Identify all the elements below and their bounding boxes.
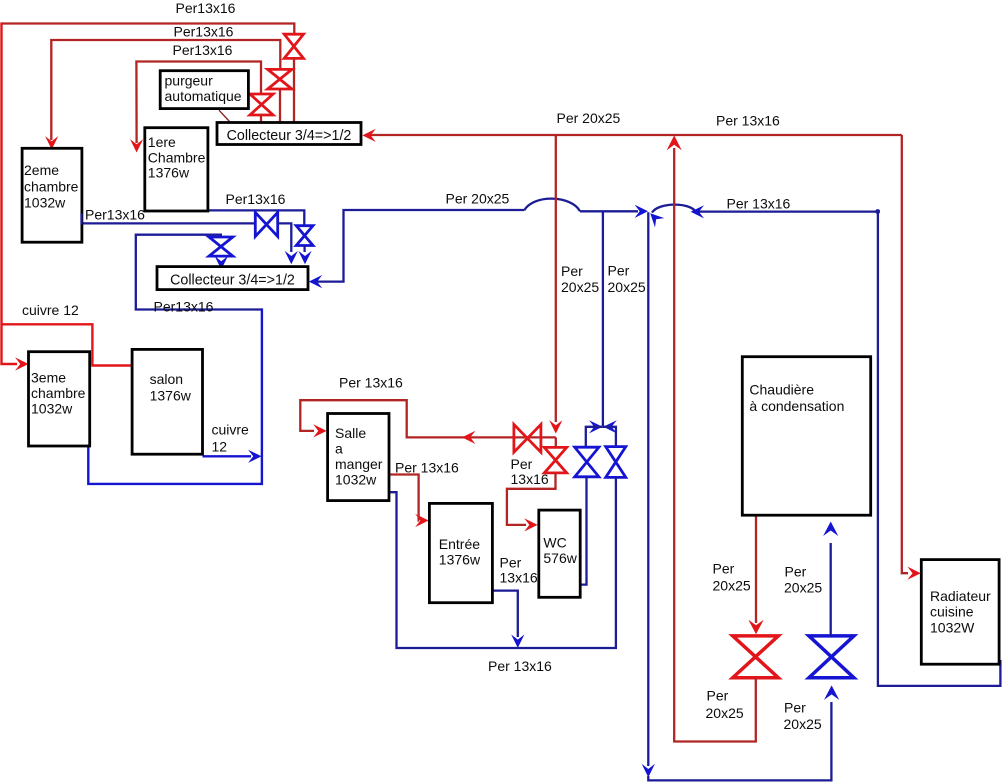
arrow into junction xyxy=(635,205,648,218)
svg-text:cuivre 12: cuivre 12 xyxy=(22,302,79,318)
svg-text:1032w: 1032w xyxy=(24,194,66,210)
valve R4 xyxy=(514,424,541,452)
arrow into radiateur cuisine xyxy=(907,567,920,580)
valve R2 xyxy=(268,69,292,89)
valve B5 xyxy=(606,447,626,478)
radiator wc xyxy=(539,510,580,597)
svg-text:12: 12 xyxy=(212,439,228,455)
svg-text:Per: Per xyxy=(784,700,806,716)
callout line purgeur xyxy=(219,110,230,121)
wire salle to entree xyxy=(389,475,419,521)
arrow into main red valve xyxy=(748,620,763,635)
svg-text:chambre: chambre xyxy=(31,385,86,401)
valve B4 xyxy=(575,447,599,477)
purgeur automatique box xyxy=(160,71,248,109)
valve R1 xyxy=(284,34,303,58)
arrow into chaudiere xyxy=(823,522,838,537)
wire to radiateur cuisine xyxy=(902,135,908,573)
valve B main xyxy=(809,636,854,678)
svg-text:1032w: 1032w xyxy=(31,400,73,416)
svg-text:Salle: Salle xyxy=(335,425,366,441)
svg-text:20x25: 20x25 xyxy=(561,279,599,295)
svg-text:Per: Per xyxy=(713,561,735,577)
wire xyxy=(830,543,832,636)
svg-text:a: a xyxy=(335,440,343,456)
arrow flow left on feed xyxy=(462,431,475,444)
svg-text:Collecteur 3/4=>1/2: Collecteur 3/4=>1/2 xyxy=(227,128,352,144)
collecteur 1 box xyxy=(217,123,361,145)
svg-text:1ere: 1ere xyxy=(148,134,176,150)
wire main hot supply xyxy=(365,134,902,136)
chaudiere box xyxy=(742,357,870,516)
wire entree return xyxy=(492,591,517,637)
svg-text:WC: WC xyxy=(543,535,566,551)
wire xyxy=(580,210,638,212)
wire 1ere chambre return xyxy=(208,210,304,226)
svg-text:Per 13x16: Per 13x16 xyxy=(727,196,791,212)
svg-text:Per 13x16: Per 13x16 xyxy=(395,460,459,476)
arrow up to main xyxy=(667,135,682,150)
svg-text:salon: salon xyxy=(150,371,183,387)
wire cuivre 12 return loop xyxy=(88,308,262,484)
svg-text:cuisine: cuisine xyxy=(930,604,974,620)
svg-text:20x25: 20x25 xyxy=(784,580,822,596)
wire boiler supply down xyxy=(755,515,757,623)
wire drop to salle group xyxy=(555,135,557,422)
svg-text:Per13x16: Per13x16 xyxy=(173,42,233,58)
svg-text:à condensation: à condensation xyxy=(749,398,844,414)
svg-text:Per: Per xyxy=(561,263,583,279)
wire riser junction xyxy=(602,211,604,426)
wire salle return xyxy=(389,477,616,648)
wire supply line B xyxy=(51,40,280,140)
svg-text:Per: Per xyxy=(707,688,729,704)
wire xyxy=(580,477,586,585)
svg-text:Per: Per xyxy=(785,564,807,580)
radiator salle a manger xyxy=(328,414,389,501)
arrow entree into return xyxy=(511,635,524,648)
arrow into collecteur 2 top xyxy=(215,256,228,269)
svg-text:automatique: automatique xyxy=(165,88,242,104)
wire bridge arc 2 xyxy=(652,205,696,213)
arrow into collecteur 1 xyxy=(362,129,375,142)
svg-text:chambre: chambre xyxy=(24,178,79,194)
wire wc return xyxy=(586,427,603,448)
svg-text:20x25: 20x25 xyxy=(713,578,751,594)
arrow into collecteur 2 xyxy=(285,251,298,264)
junction dot xyxy=(875,209,880,214)
wire main return down xyxy=(647,212,649,766)
svg-text:Per 20x25: Per 20x25 xyxy=(557,110,621,126)
radiator 2eme chambre xyxy=(22,148,82,242)
valve B2 xyxy=(255,212,277,236)
svg-text:3eme: 3eme xyxy=(31,369,66,385)
svg-text:20x25: 20x25 xyxy=(608,279,646,295)
arrow into entree xyxy=(415,514,428,527)
svg-text:Per: Per xyxy=(500,555,522,571)
wire xyxy=(303,246,305,253)
wire right return xyxy=(696,212,1000,686)
wire salle a manger feed xyxy=(300,400,556,437)
wire cuivre 12 supply drop xyxy=(2,22,18,364)
svg-text:1376w: 1376w xyxy=(439,552,481,568)
svg-text:Per 13x16: Per 13x16 xyxy=(488,658,552,674)
wire stub 2eme chambre outlet xyxy=(80,214,82,225)
svg-text:Per 13x16: Per 13x16 xyxy=(339,375,403,391)
wire supply line A xyxy=(2,24,295,35)
wire left return loop xyxy=(136,235,262,310)
wire wc feed xyxy=(507,473,556,525)
wire xyxy=(279,89,281,123)
svg-text:Per13x16: Per13x16 xyxy=(154,299,214,315)
wire from boiler valve to main xyxy=(674,148,756,742)
svg-text:13x16: 13x16 xyxy=(500,570,538,586)
arrow on right return xyxy=(691,205,704,218)
arrow at 1ere chambre xyxy=(130,139,143,152)
valve R main xyxy=(733,636,779,678)
svg-text:Per13x16: Per13x16 xyxy=(176,0,236,16)
radiator 1ere chambre xyxy=(145,128,208,211)
arrow arc into junction xyxy=(650,213,664,227)
svg-text:cuivre: cuivre xyxy=(212,422,250,438)
svg-text:1376w: 1376w xyxy=(148,165,190,181)
valve B1 xyxy=(296,226,313,246)
svg-text:2eme: 2eme xyxy=(24,162,59,178)
arrow right branch into junction xyxy=(603,420,616,433)
valve R5 xyxy=(544,447,566,473)
svg-text:Per 20x25: Per 20x25 xyxy=(446,191,510,207)
wire collecteur 2 to main return xyxy=(312,210,524,282)
radiator 3eme chambre xyxy=(29,352,90,446)
arrow into 3eme chambre xyxy=(15,357,28,370)
arrow into collecteur 2 xyxy=(298,251,311,264)
svg-text:20x25: 20x25 xyxy=(784,716,822,732)
arrow down to valve group xyxy=(549,420,562,433)
svg-text:Per13x16: Per13x16 xyxy=(226,191,286,207)
arrow down at bottom xyxy=(642,764,655,777)
wire bottom return xyxy=(648,702,831,780)
arrow up into main blue valve xyxy=(824,685,839,700)
svg-text:13x16: 13x16 xyxy=(511,471,549,487)
wire 2eme chambre return xyxy=(82,222,256,224)
svg-text:Chambre: Chambre xyxy=(148,149,206,165)
svg-text:Radiateur: Radiateur xyxy=(930,588,991,604)
svg-text:Per: Per xyxy=(511,456,533,472)
wire xyxy=(555,437,557,447)
valve R3 xyxy=(250,94,273,115)
arrow left branch into junction xyxy=(589,420,602,433)
arrow into salle a manger xyxy=(313,424,326,437)
collecteur 2 box xyxy=(157,267,308,290)
arrow into wc xyxy=(524,518,537,531)
svg-text:Per13x16: Per13x16 xyxy=(174,24,234,40)
arrow salon into loop xyxy=(248,450,261,463)
wire xyxy=(293,58,295,122)
svg-text:Per 13x16: Per 13x16 xyxy=(716,113,780,129)
arrow into collecteur 2 right xyxy=(309,275,322,288)
svg-text:1032W: 1032W xyxy=(930,620,975,636)
svg-text:Chaudière: Chaudière xyxy=(749,382,814,398)
wire xyxy=(260,115,262,123)
svg-text:20x25: 20x25 xyxy=(706,705,744,721)
radiateur cuisine box xyxy=(921,560,999,665)
svg-text:Entrée: Entrée xyxy=(439,536,480,552)
wire salle return branch xyxy=(603,427,616,447)
svg-text:Collecteur 3/4=>1/2: Collecteur 3/4=>1/2 xyxy=(170,272,295,288)
svg-text:Per: Per xyxy=(608,263,630,279)
radiator salon xyxy=(132,349,202,454)
wire xyxy=(278,223,292,252)
svg-text:576w: 576w xyxy=(543,550,577,566)
wire bridge arc xyxy=(524,199,580,212)
svg-text:Per13x16: Per13x16 xyxy=(85,207,145,223)
wire salon return xyxy=(203,455,252,457)
wire supply line C xyxy=(136,62,261,144)
svg-text:purgeur: purgeur xyxy=(165,73,214,89)
svg-text:manger: manger xyxy=(335,456,383,472)
svg-text:1032w: 1032w xyxy=(335,471,377,487)
wire branch to salon xyxy=(2,324,133,365)
valve B3 xyxy=(209,237,233,256)
arrow into 2eme chambre xyxy=(45,136,58,149)
radiator entree xyxy=(429,503,492,602)
svg-text:1376w: 1376w xyxy=(150,387,192,403)
